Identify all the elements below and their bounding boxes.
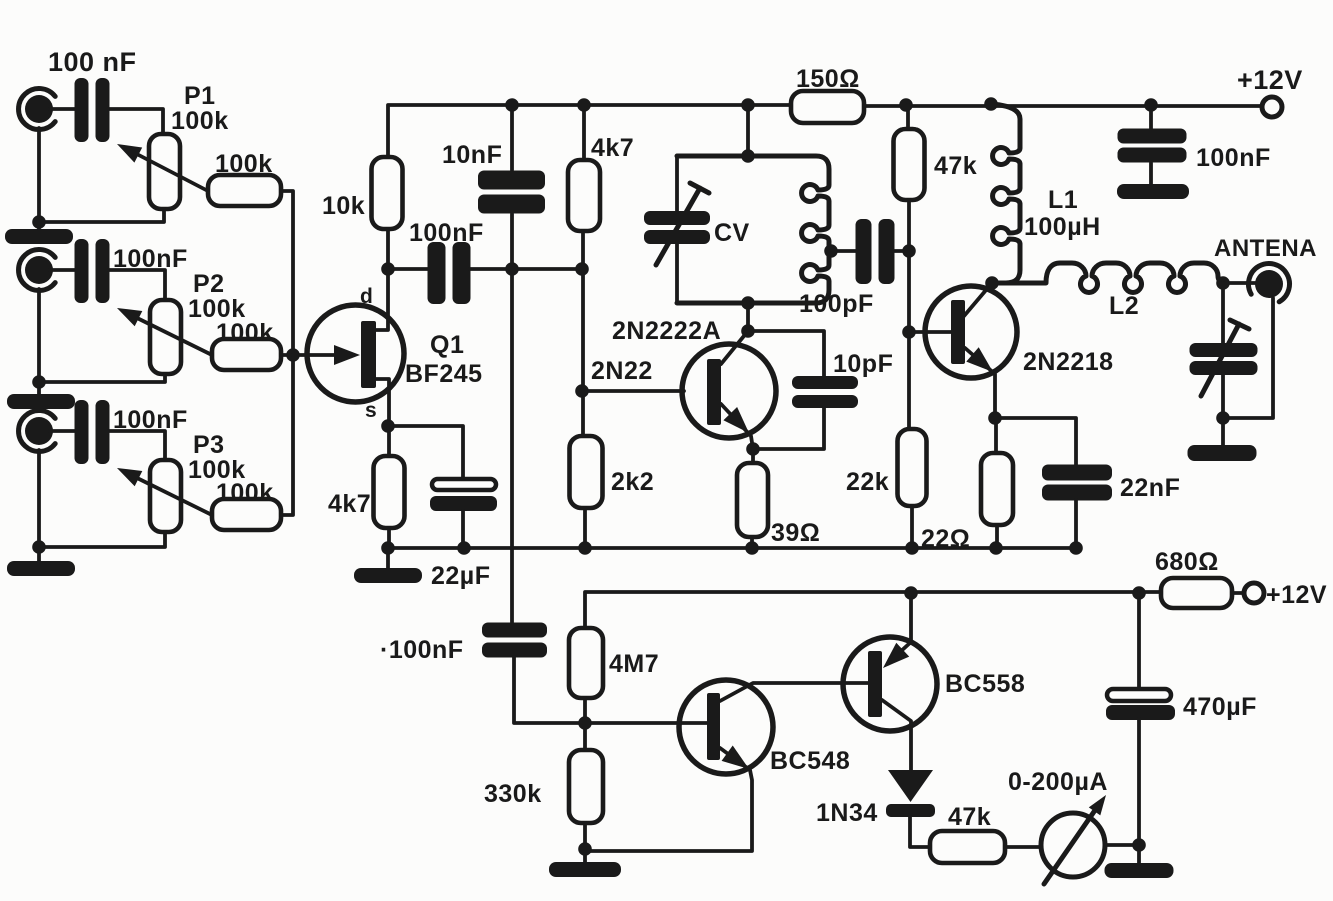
svg-text:P1: P1 (184, 82, 216, 110)
svg-text:100k: 100k (171, 107, 229, 135)
wire collector BC548 (720, 683, 868, 701)
resistor 100k ch3 (212, 499, 281, 530)
2N2218 base bar (951, 300, 965, 364)
wire collector 2N2218 (964, 283, 992, 316)
resistor 4k7 top (568, 160, 600, 231)
junction rail at 4k7 (577, 98, 591, 112)
svg-text:·100nF: ·100nF (380, 636, 464, 664)
wire antenna return (1223, 298, 1273, 418)
potentiometer P3 body (150, 460, 181, 532)
wire jack1 to C1 (50, 107, 75, 111)
junction mid row at 10nF (505, 262, 519, 276)
meter needle (1044, 803, 1100, 884)
svg-text:P3: P3 (193, 431, 225, 459)
svg-text:330k: 330k (484, 780, 542, 808)
node gate bus (286, 348, 300, 362)
svg-text:Q1: Q1 (430, 331, 464, 359)
junction bias node (578, 716, 592, 730)
wire tank bottom to collector node (746, 303, 750, 331)
junction emitter node 2N2222A (746, 442, 760, 456)
svg-text:2N22: 2N22 (591, 357, 653, 385)
wire collector BC558 (882, 700, 911, 770)
wire +12V top rail left (388, 105, 791, 157)
capacitor CV plates (644, 211, 710, 244)
wire CV branch top (675, 156, 679, 211)
emitter arrowhead BC558 into base (883, 643, 909, 668)
ground stub left (386, 548, 390, 568)
wiper arrowhead P2 (117, 308, 142, 326)
svg-text:0-200µA: 0-200µA (1008, 768, 1108, 796)
svg-text:22k: 22k (846, 468, 889, 496)
wire L2 to antenna jack (1223, 281, 1256, 285)
svg-text:+12V: +12V (1237, 65, 1303, 95)
wire base 2N2222A (582, 389, 684, 393)
junction rail2-470uF (1132, 586, 1146, 600)
gate arrowhead Q1 (334, 345, 360, 365)
junction rail-47k (899, 98, 913, 112)
terminal +12V top (1262, 97, 1282, 117)
wire 4k7 to 2k2 (581, 231, 585, 436)
junction collector node 2N2222A (741, 324, 755, 338)
wire source of Q1 (376, 379, 389, 456)
resistor 10k (372, 157, 403, 229)
potentiometer P1 body (149, 134, 180, 209)
svg-text:4k7: 4k7 (328, 490, 371, 518)
emitter arrowhead 2N2218 (966, 347, 993, 372)
junction rail-L1 (984, 97, 998, 111)
junction rail2-BC558 (904, 586, 918, 600)
junction rail-2k2 (578, 541, 592, 555)
resistor 47k bottom (930, 831, 1005, 863)
svg-text:100nF: 100nF (1196, 144, 1271, 172)
junction rail end (1069, 541, 1083, 555)
junction jack3 ground (32, 540, 46, 554)
svg-text:100 nF: 100 nF (48, 47, 137, 77)
wiper arrowhead P1 (117, 144, 142, 163)
wire jack3 ground drop (37, 450, 41, 561)
wire emitter to 22nF (995, 418, 1076, 465)
resistor 4k7 source (374, 456, 405, 528)
junction rail-22uF (457, 541, 471, 555)
transistor BC548 body (679, 680, 773, 774)
svg-text:10pF: 10pF (833, 350, 893, 378)
ground antenna (1188, 445, 1257, 461)
resistor 39 ohm (737, 463, 768, 537)
wire 22ohm to rail (995, 525, 999, 548)
wire 47k top stub (906, 105, 910, 129)
capacitor 470uF electrolytic (1107, 689, 1171, 701)
junction 100pF node (902, 244, 916, 258)
input jack J2 (19, 250, 56, 291)
svg-text:P2: P2 (193, 270, 225, 298)
transistor 2N2222A body (682, 344, 776, 438)
BC548 base bar (707, 693, 720, 760)
wire 100k ch2 to gate bus (281, 353, 293, 357)
ground rail (388, 546, 1076, 550)
diode 1N34 (888, 770, 933, 802)
wire C2 to P2 top (109, 270, 165, 300)
svg-text:+12V: +12V (1266, 581, 1327, 609)
meter needle arrowhead (1089, 795, 1106, 815)
wire 22k to rail (910, 506, 914, 548)
capacitor 100nF input 2 (75, 239, 110, 303)
input jack J3 (19, 411, 56, 452)
transistor Q1 BF245 body (307, 305, 404, 402)
svg-text:470µF: 470µF (1183, 693, 1257, 721)
svg-text:10k: 10k (322, 192, 365, 220)
capacitor 22uF electrolytic (432, 479, 496, 490)
wire 680 to terminal (1232, 591, 1244, 595)
capacitor 10nF (478, 171, 545, 214)
inductor L1 100uH (991, 104, 1020, 283)
wire base 2N2218 (909, 330, 951, 334)
svg-text:100nF: 100nF (409, 219, 484, 247)
junction emitter node 2N2218 (988, 411, 1002, 425)
transistor 2N2218 body (925, 286, 1017, 378)
svg-text:680Ω: 680Ω (1155, 548, 1219, 576)
ground symbol main (354, 568, 422, 583)
wire mid row left (388, 267, 428, 271)
resistor 100k ch2 (212, 339, 281, 370)
capacitor 100nF mid (428, 242, 471, 304)
svg-text:BC548: BC548 (770, 747, 850, 775)
svg-text:47k: 47k (948, 803, 991, 831)
junction base node 2N2222A (575, 384, 589, 398)
capacitor 100nF input 3 (75, 400, 110, 464)
svg-text:10nF: 10nF (442, 141, 502, 169)
wire trimmer to ground node (1221, 374, 1225, 418)
wire tap to 100pF (831, 249, 856, 253)
wire 100k ch1 to gate bus (281, 191, 293, 355)
junction base node 2N2218 (902, 325, 916, 339)
wire 10pF bottom branch (753, 408, 824, 449)
antenna jack (1248, 264, 1289, 302)
junction coil tap (824, 244, 838, 258)
wiper P2 (131, 315, 212, 355)
wire 470uF drop (1137, 593, 1141, 688)
wire 10nF drop (510, 105, 514, 170)
junction meter node (1132, 838, 1146, 852)
junction rail-39ohm (745, 541, 759, 555)
svg-text:L2: L2 (1109, 292, 1139, 320)
ground input 3 (7, 561, 75, 576)
wire antenna ground stub (1221, 418, 1225, 445)
wire P3 bottom to jack3 ground (39, 532, 165, 547)
junction 330k bottom (578, 842, 592, 856)
junction drain node (381, 262, 395, 276)
svg-text:100pF: 100pF (799, 290, 874, 318)
wire jack2 to C2 (50, 268, 75, 272)
wire 4M7 to node (583, 698, 587, 750)
junction source node (381, 419, 395, 433)
junction L2-antenna (1216, 276, 1230, 290)
resistor 330k (569, 750, 603, 823)
wire trimmer branch (1221, 283, 1225, 344)
resistor 150 ohm (791, 91, 864, 123)
wiper arrowhead P3 (117, 468, 142, 486)
wire 47k to meter (1005, 845, 1041, 849)
emitter arrowhead BC548 (722, 746, 749, 770)
capacitor 100pF (856, 219, 895, 284)
wire 10pF top branch (748, 331, 824, 376)
wire 22nF to rail end (1074, 500, 1078, 548)
junction jack1 ground (32, 215, 46, 229)
capacitor 10pF (792, 376, 858, 408)
junction rail-22ohm (989, 541, 1003, 555)
wire 100nF to ground (1149, 163, 1153, 184)
capacitor 100nF bottom (482, 623, 547, 658)
junction rail-tank (741, 98, 755, 112)
svg-text:22µF: 22µF (431, 562, 490, 590)
svg-text:2N2222A: 2N2222A (612, 317, 721, 345)
wire emitter 2N2218 (965, 348, 995, 418)
wire C1 to P1 top (109, 109, 163, 134)
CV trimmer arrow (656, 183, 709, 265)
transistor BC558 body (843, 637, 937, 731)
svg-text:22Ω: 22Ω (921, 525, 970, 553)
resistor 680 ohm (1161, 578, 1232, 608)
svg-text:39Ω: 39Ω (771, 519, 820, 547)
antenna trimmer arrow (1201, 320, 1249, 396)
junction tank top (741, 149, 755, 163)
wire jack2 ground drop (37, 289, 41, 394)
wire C3 to P3 top (109, 431, 165, 460)
junction tank bottom (741, 296, 755, 310)
svg-text:1N34: 1N34 (816, 799, 878, 827)
emitter arrowhead 2N2222A (723, 407, 749, 433)
wire rail to tank (746, 105, 750, 156)
capacitor 100nF decoupling (1118, 129, 1187, 163)
svg-text:BC558: BC558 (945, 670, 1025, 698)
wire 100nF decoupling drop (1149, 105, 1153, 130)
resistor 22k (898, 429, 927, 506)
wire +12V top rail right (864, 104, 1261, 108)
junction collector node 2N2218 (985, 276, 999, 290)
svg-text:22nF: 22nF (1120, 474, 1180, 502)
wire 39ohm to rail (750, 537, 754, 548)
svg-text:L1: L1 (1048, 186, 1078, 214)
ground meter (1105, 863, 1174, 878)
svg-text:s: s (365, 399, 377, 422)
wire 330k to ground (583, 823, 587, 862)
BC558 base bar (868, 651, 882, 717)
junction rail-100nF (1144, 98, 1158, 112)
wiper P1 (131, 151, 208, 191)
wire +12V second rail (585, 592, 1161, 628)
wire gate into Q1 (293, 353, 340, 357)
svg-text:47k: 47k (934, 152, 977, 180)
wire 4k7 source to rail (387, 528, 391, 548)
capacitor 100nF input 1 (75, 78, 110, 142)
svg-text:BF245: BF245 (405, 360, 483, 388)
ground 100nF decoupling (1117, 184, 1189, 199)
wiper P3 (131, 475, 212, 515)
wire 100k ch3 to gate bus (281, 355, 293, 515)
ground input 2 (7, 394, 75, 409)
wire jack3 to C3 (50, 429, 75, 433)
resistor 22 ohm (981, 453, 1013, 525)
svg-text:d: d (360, 285, 373, 308)
inductor tank coil (677, 156, 829, 303)
wire collector 2N2222A (721, 331, 748, 364)
svg-text:2N2218: 2N2218 (1023, 348, 1114, 376)
2N2222A base bar (707, 359, 721, 425)
wire 100nF bottom to node (514, 657, 584, 723)
svg-text:100µH: 100µH (1024, 213, 1101, 241)
wire 10nF down long (510, 214, 514, 623)
wire emitter BC548 (585, 748, 752, 851)
capacitor 22nF (1042, 465, 1112, 501)
wire emitter 2N2222A (721, 404, 753, 463)
resistor 4M7 (569, 628, 603, 698)
wire 4k7 top stub (582, 105, 586, 160)
wire 10k to drain node (376, 229, 388, 330)
wire 2k2 to ground rail (583, 508, 587, 548)
wire 47k to 22k (907, 200, 911, 429)
meter M1 body (1041, 813, 1105, 877)
wire 470uF to meter node (1137, 719, 1141, 845)
wire diode to 47k (910, 817, 930, 847)
resistor 2k2 (570, 436, 603, 508)
wire CV branch bottom (675, 244, 679, 303)
terminal +12V bottom (1244, 583, 1264, 603)
wire 100pF to 47k line (894, 249, 910, 253)
ground bottom (549, 862, 621, 877)
wire emitter BC558 (888, 593, 911, 663)
junction rail at 10nF (505, 98, 519, 112)
junction jack2 ground (32, 375, 46, 389)
junction antenna ground node (1216, 411, 1230, 425)
wire 22ohm stub top (994, 418, 998, 453)
ground input 1 (5, 229, 73, 244)
svg-text:4M7: 4M7 (609, 650, 659, 678)
junction mid row at 4k7 (575, 262, 589, 276)
wire mid row right (470, 267, 582, 271)
wire source to 22uF (388, 426, 463, 478)
wire meter to 470uF node (1105, 843, 1139, 847)
junction rail-22k (905, 541, 919, 555)
resistor 47k top (894, 129, 925, 200)
svg-text:ANTENA: ANTENA (1214, 235, 1317, 262)
capacitor antenna trimmer (1190, 343, 1258, 375)
Q1 channel bar (361, 321, 376, 388)
svg-text:4k7: 4k7 (591, 134, 634, 162)
wire base BC548 (584, 721, 707, 725)
junction rail-4k7 (381, 541, 395, 555)
wire meter node ground stub (1137, 845, 1141, 863)
svg-text:CV: CV (714, 219, 750, 247)
inductor L2 (992, 263, 1223, 292)
resistor 100k ch1 (208, 175, 281, 206)
wire P1 bottom to jack1 ground (39, 209, 164, 222)
input jack J1 (19, 88, 56, 129)
potentiometer P2 body (150, 300, 181, 374)
wire jack1 ground drop (37, 128, 41, 229)
svg-text:2k2: 2k2 (611, 468, 654, 496)
wire P2 bottom to jack2 ground (39, 374, 165, 382)
wire 22uF to rail (461, 511, 465, 548)
